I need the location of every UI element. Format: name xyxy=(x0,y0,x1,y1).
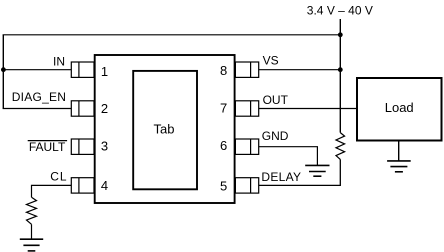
pin 4 box xyxy=(71,178,94,193)
svg-text:5: 5 xyxy=(220,178,227,193)
pin 8 box xyxy=(235,62,258,77)
svg-text:6: 6 xyxy=(220,138,227,153)
pin 3 box xyxy=(71,139,94,154)
svg-text:GND: GND xyxy=(262,129,289,143)
svg-text:1: 1 xyxy=(101,64,108,79)
svg-text:IN: IN xyxy=(53,54,65,68)
ground symbol below Load xyxy=(387,161,411,172)
resistor R2 (supply to DELAY) xyxy=(336,133,345,160)
pin 2 box xyxy=(71,101,94,116)
junction dot at supply line and top wire xyxy=(338,32,343,37)
svg-text:FAULT: FAULT xyxy=(29,140,66,154)
IC U1 body xyxy=(95,55,235,203)
svg-text:3: 3 xyxy=(101,138,108,153)
svg-text:CL: CL xyxy=(50,170,67,184)
svg-text:7: 7 xyxy=(220,100,227,115)
Load box xyxy=(357,78,442,141)
svg-text:8: 8 xyxy=(220,63,227,78)
svg-text:DIAG_EN: DIAG_EN xyxy=(12,90,66,104)
svg-text:3.4 V – 40 V: 3.4 V – 40 V xyxy=(307,4,373,18)
svg-text:4: 4 xyxy=(101,178,108,193)
pin 6 box xyxy=(235,139,258,154)
wire OUT pin 7 to Load xyxy=(259,108,357,110)
wire supply vertical from label down to resistor R2 top xyxy=(339,19,341,133)
pin 1 box xyxy=(71,62,94,77)
svg-text:Load: Load xyxy=(385,100,414,115)
wire IN to pin 1 xyxy=(3,69,72,71)
resistor R1 (CL to ground) xyxy=(27,197,37,224)
wire DELAY pin 5 right then up to resistor R2 bottom xyxy=(259,159,341,185)
ground symbol below R1 xyxy=(20,239,43,251)
wire Load bottom to ground xyxy=(398,141,400,161)
pin 5 box xyxy=(235,178,258,193)
wire top horizontal from left vertical to supply line xyxy=(3,34,341,36)
ground symbol at GND pin xyxy=(305,165,329,176)
svg-text:DELAY: DELAY xyxy=(261,170,301,184)
svg-text:OUT: OUT xyxy=(263,93,289,107)
label FAULT (active low, with overline) xyxy=(28,140,67,154)
svg-text:VS: VS xyxy=(263,54,279,68)
pin 7 box xyxy=(235,101,258,116)
wire DIAG_EN to pin 2 xyxy=(3,108,72,110)
Tab pad box of U1 xyxy=(133,71,197,189)
wire GND pin 6 right then down to ground xyxy=(259,147,318,166)
wire CL from pin 4 left then down to resistor R1 xyxy=(32,185,72,197)
svg-text:Tab: Tab xyxy=(154,121,175,136)
junction dot at left vertical and IN wire xyxy=(1,67,6,72)
wire VS pin 8 to supply line xyxy=(259,69,341,71)
wire resistor R1 bottom to ground xyxy=(31,224,33,239)
junction dot at supply line and VS wire xyxy=(338,67,343,72)
wire left vertical (IN / DIAG_EN tie to supply) xyxy=(2,35,4,109)
svg-text:2: 2 xyxy=(101,101,108,116)
